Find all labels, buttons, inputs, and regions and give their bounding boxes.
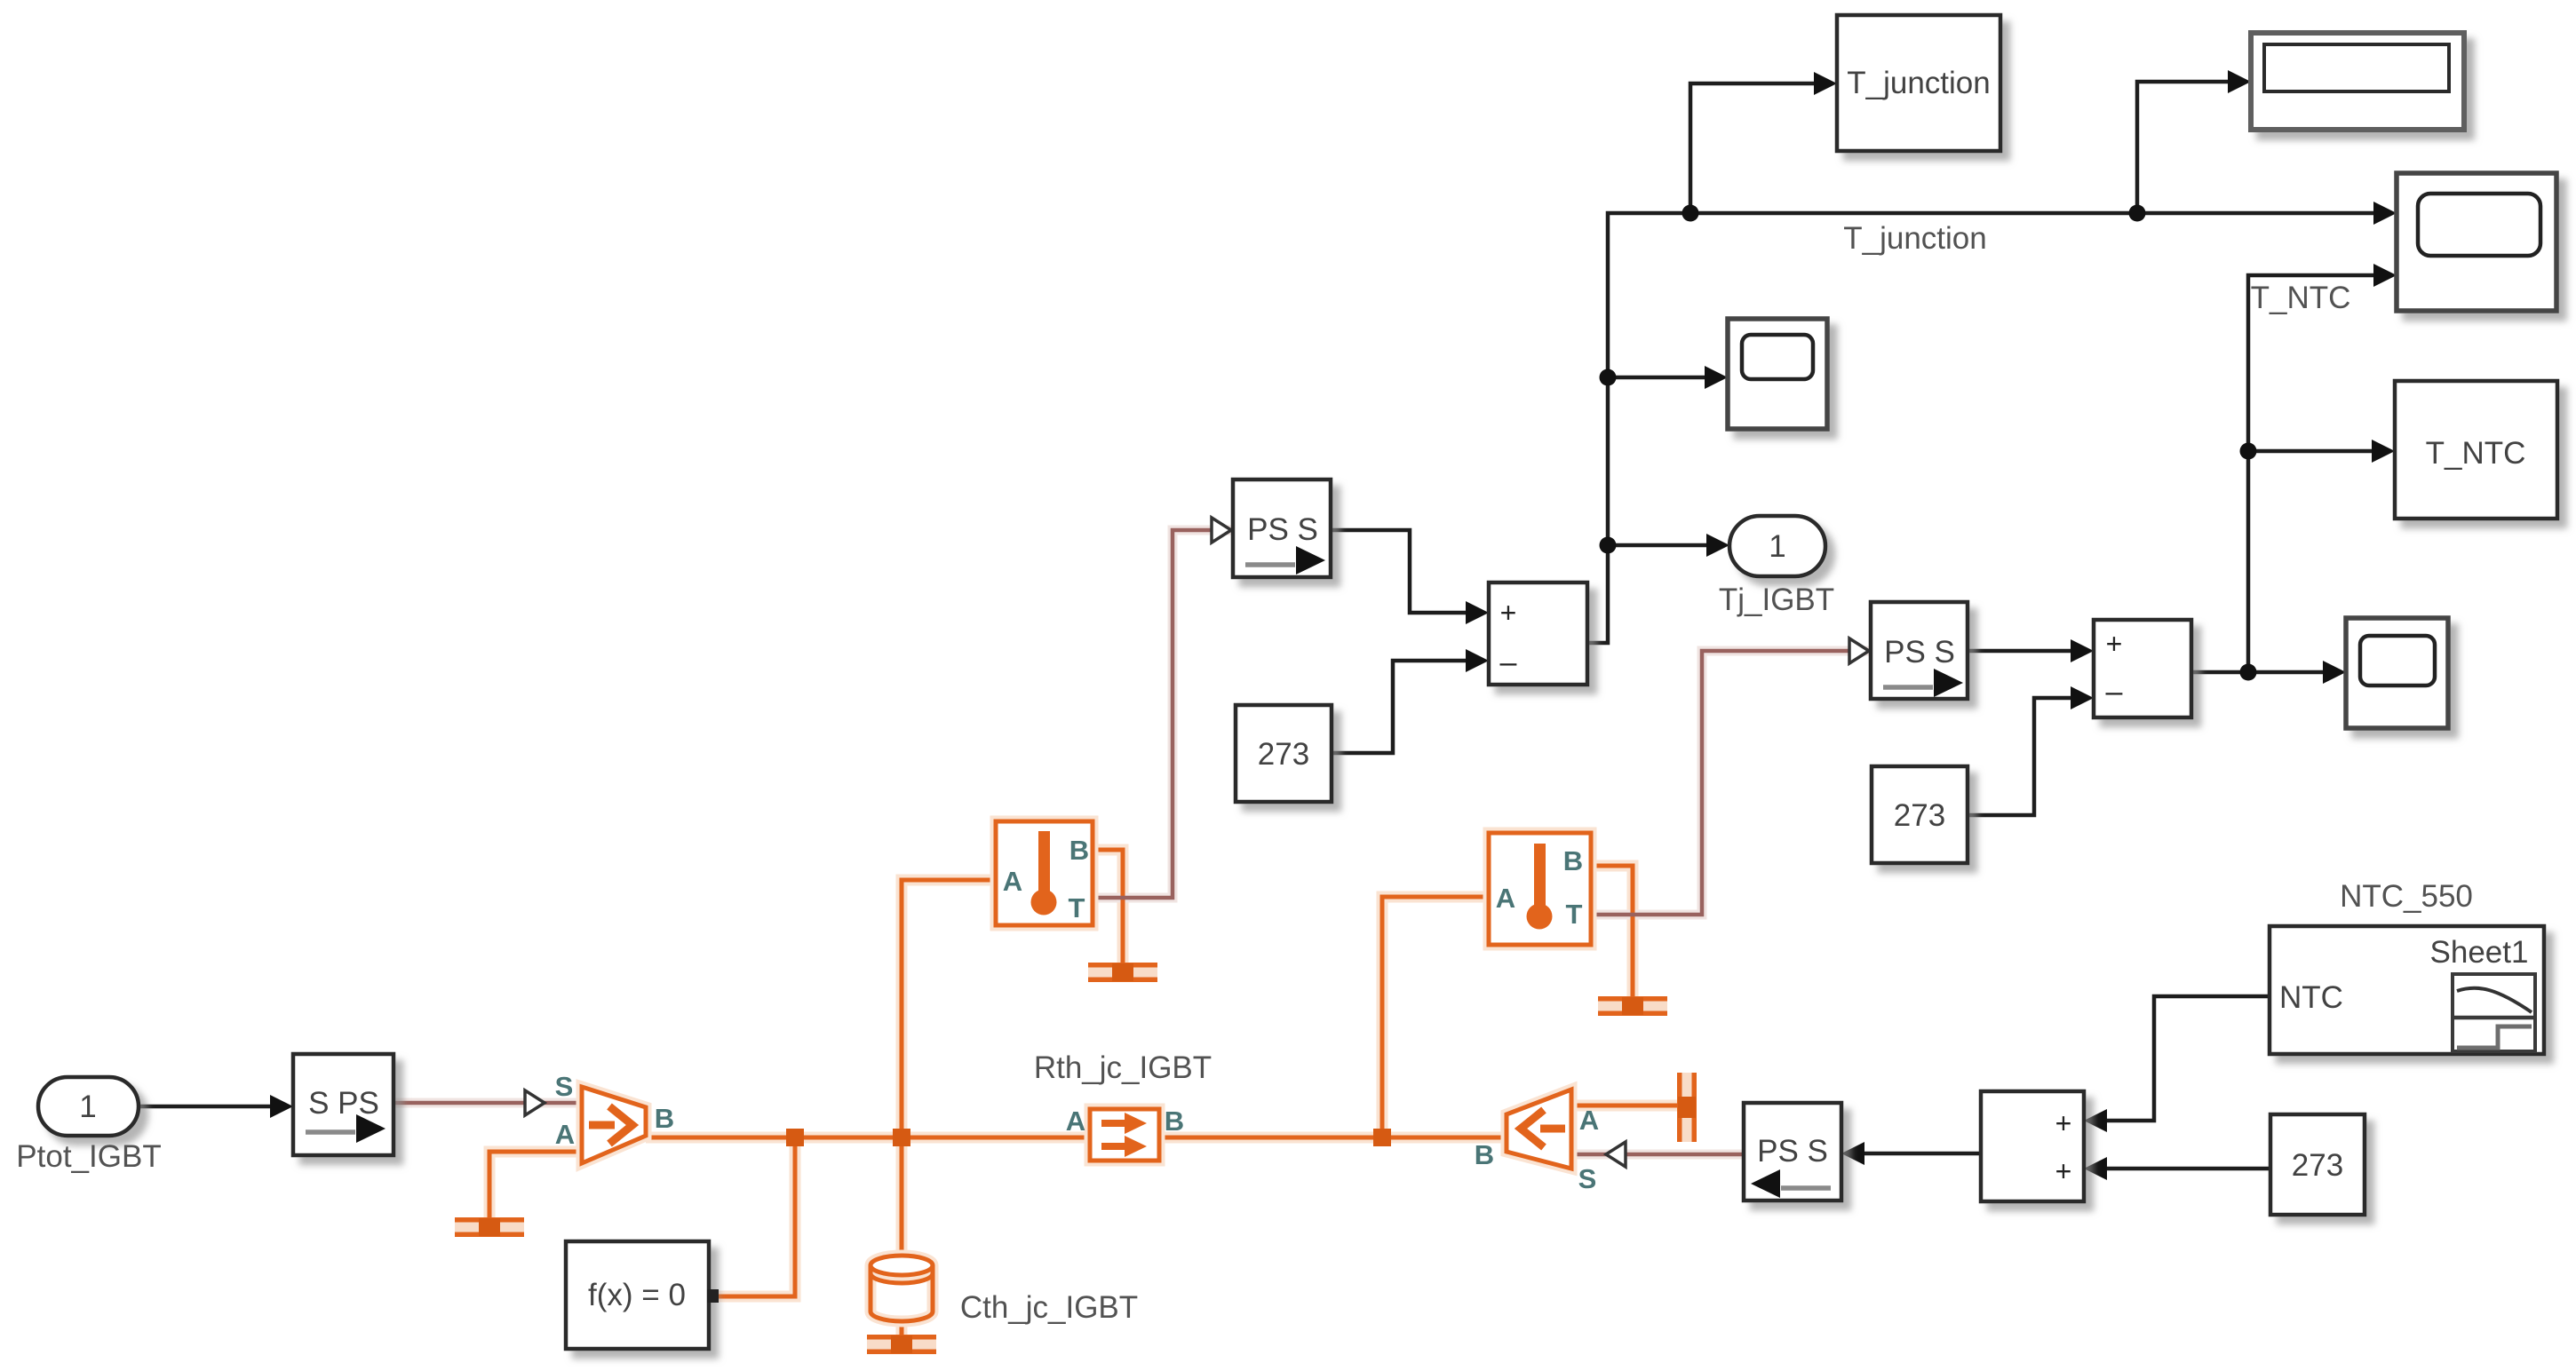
wire: trunk branch to Scope1 xyxy=(1608,366,1728,389)
junction node: trunk to Tj_IGBT xyxy=(1600,537,1617,554)
wire: Constant 273 (2) to Sum3 minus input xyxy=(1968,686,2094,815)
svg-text:Sheet1: Sheet1 xyxy=(2430,935,2529,970)
wire: maroon PS signal sensor2 T to PS-S2 xyxy=(1591,638,1871,915)
temperature sensor2 xyxy=(1489,833,1591,945)
wire: orange branch to temperature sensor2 A port xyxy=(1382,897,1489,1137)
wire: branch up to Display block xyxy=(2137,70,2251,213)
scope Scope3 xyxy=(2346,618,2448,728)
wire: sensor2 B port to thermal reference xyxy=(1591,866,1633,998)
svg-text:T: T xyxy=(1566,899,1583,930)
wire: PS-S1 output to Sum1 plus input xyxy=(1331,530,1489,624)
junction node: orange sensor2 tie xyxy=(1373,1129,1391,1146)
svg-text:B: B xyxy=(1069,835,1089,866)
heat flow source1 (controlled heat flow rate source) xyxy=(582,1087,646,1163)
subsystem NTC_550 xyxy=(2270,926,2544,1054)
wire: orange source1 A port to thermal reference xyxy=(489,1152,582,1218)
thermal mass Cth_jc_IGBT xyxy=(871,1256,933,1321)
svg-text:T_junction: T_junction xyxy=(1843,221,1986,256)
svg-text:B: B xyxy=(655,1103,674,1134)
junction node: orange f(x) tie xyxy=(786,1129,804,1146)
svg-text:+: + xyxy=(2055,1155,2072,1187)
svg-text:273: 273 xyxy=(1258,737,1309,772)
wire: Constant 273 (1) to Sum1 minus input xyxy=(1332,649,1489,753)
scope Scope2 (two inputs) xyxy=(2397,173,2556,311)
svg-text:273: 273 xyxy=(2292,1148,2343,1183)
goto block T_NTC xyxy=(2395,381,2557,519)
svg-text:A: A xyxy=(1579,1105,1599,1136)
svg-text:–: – xyxy=(2106,675,2123,709)
svg-text:PS S: PS S xyxy=(1884,635,1955,670)
wire: orange branch to temperature sensor1 A port xyxy=(902,880,996,1137)
junction node: T_NTC to goto xyxy=(2240,443,2257,460)
wire: maroon PS signal S-PS to source1 S port xyxy=(394,1090,582,1115)
svg-text:PS S: PS S xyxy=(1757,1134,1828,1169)
wire: orange thermal main line node A (junction to conduction network) xyxy=(646,1136,1507,1140)
constant 273 (2) xyxy=(1872,766,1968,863)
wire: Sum3 output to Scope3 xyxy=(2191,661,2346,684)
svg-text:A: A xyxy=(1066,1106,1085,1137)
wire: orange branch to Cth_jc_IGBT and its reference xyxy=(900,1137,904,1337)
svg-text:S: S xyxy=(555,1071,574,1102)
sum block Sum2 (reversed) xyxy=(1981,1091,2084,1201)
svg-text:+: + xyxy=(2106,628,2123,660)
svg-text:1: 1 xyxy=(79,1090,96,1124)
junction node: trunk to Scope1 xyxy=(1600,369,1617,386)
ground: thermal reference under heat flow source1 xyxy=(455,1217,524,1237)
wire: Constant 273 (3) to Sum2 second input xyxy=(2084,1157,2270,1180)
scope Scope1 xyxy=(1728,319,1827,429)
svg-text:B: B xyxy=(1165,1106,1184,1137)
converter PS-S2 xyxy=(1871,602,1968,699)
junction node: orange Cth/sensor1 tie xyxy=(893,1129,910,1146)
ground: vertical thermal reference right of source2 xyxy=(1677,1073,1697,1142)
wire: Sum2 output to PS-S3 input xyxy=(1841,1142,1981,1165)
sum block Sum3 xyxy=(2094,620,2191,717)
converter PS-S1 xyxy=(1233,479,1331,577)
wire: NTC_550 output to Sum2 first input xyxy=(2084,996,2270,1132)
wire: T_NTC vertical to Scope2 bottom input xyxy=(2248,264,2397,672)
wire: branch up to T_junction goto block xyxy=(1690,72,1837,213)
goto block T_junction xyxy=(1837,15,2000,151)
ground: thermal reference under sensor1 B xyxy=(1088,963,1157,982)
svg-text:T_NTC: T_NTC xyxy=(2426,436,2526,471)
svg-text:A: A xyxy=(1003,866,1022,897)
svg-text:–: – xyxy=(1500,646,1517,679)
svg-text:273: 273 xyxy=(1894,798,1945,833)
heat flow source2 (reversed) xyxy=(1507,1090,1571,1169)
svg-text:NTC: NTC xyxy=(2279,980,2343,1015)
svg-text:+: + xyxy=(1500,597,1517,629)
wire: Ptot_IGBT input to S-PS converter xyxy=(139,1095,293,1118)
svg-text:T: T xyxy=(1069,892,1085,923)
wire: PS-S2 output to Sum3 plus input xyxy=(1968,639,2094,662)
svg-text:f(x) = 0: f(x) = 0 xyxy=(588,1278,686,1312)
ground: thermal reference under sensor2 B xyxy=(1598,996,1667,1016)
sum block Sum1 xyxy=(1489,582,1587,685)
conductive heat transfer Rth_jc_IGBT xyxy=(1090,1109,1159,1161)
wire: maroon PS signal sensor1 T to PS-S1 xyxy=(1093,518,1233,898)
svg-text:T_junction: T_junction xyxy=(1847,66,1990,100)
temperature sensor1 xyxy=(996,821,1093,925)
wire: Sum1 output trunk and T_junction line to Scope2 top input xyxy=(1587,202,2397,643)
converter PS-S3 (reversed) xyxy=(1744,1103,1841,1201)
wire: orange from f(x)=0 solver to main line xyxy=(718,1137,795,1296)
solver block f(x)=0 xyxy=(566,1241,719,1349)
svg-text:Ptot_IGBT: Ptot_IGBT xyxy=(16,1139,161,1174)
wire: source2 A port to vertical thermal reference xyxy=(1571,1104,1687,1108)
svg-text:NTC_550: NTC_550 xyxy=(2340,879,2473,914)
inport 1 Ptot_IGBT xyxy=(38,1077,139,1136)
svg-text:Tj_IGBT: Tj_IGBT xyxy=(1719,582,1834,617)
svg-text:B: B xyxy=(1563,845,1583,876)
wire: T_NTC branch to T_NTC goto block xyxy=(2248,440,2395,463)
svg-text:A: A xyxy=(555,1119,575,1150)
svg-text:S PS: S PS xyxy=(308,1086,379,1121)
svg-text:+: + xyxy=(2055,1107,2072,1139)
wire: maroon PS signal PS-S3 to source2 S port xyxy=(1571,1142,1744,1167)
svg-text:1: 1 xyxy=(1769,529,1785,564)
svg-text:S: S xyxy=(1578,1163,1597,1194)
junction node: T_junction line right xyxy=(2129,205,2146,222)
svg-text:A: A xyxy=(1496,883,1515,914)
wire halo underlay (pale glow of physical connection lines) xyxy=(394,530,1871,1337)
constant 273 (1) xyxy=(1236,705,1332,802)
constant 273 (3) xyxy=(2270,1114,2365,1215)
svg-text:PS S: PS S xyxy=(1247,512,1318,547)
svg-text:Cth_jc_IGBT: Cth_jc_IGBT xyxy=(960,1290,1138,1325)
ground: thermal reference under Cth_jc_IGBT xyxy=(867,1335,936,1354)
outport 1 Tj_IGBT xyxy=(1729,516,1825,576)
converter S-PS xyxy=(293,1054,394,1155)
svg-text:Rth_jc_IGBT: Rth_jc_IGBT xyxy=(1034,1050,1212,1085)
svg-text:T_NTC: T_NTC xyxy=(2251,281,2351,315)
wire: sensor1 B port to thermal reference xyxy=(1093,850,1123,964)
svg-text:B: B xyxy=(1475,1139,1494,1170)
display block xyxy=(2251,33,2464,130)
junction node: T_junction line left xyxy=(1682,205,1699,222)
junction node: Sum3 output / T_NTC xyxy=(2240,664,2257,681)
wire: trunk branch to Tj_IGBT outport xyxy=(1608,534,1729,557)
